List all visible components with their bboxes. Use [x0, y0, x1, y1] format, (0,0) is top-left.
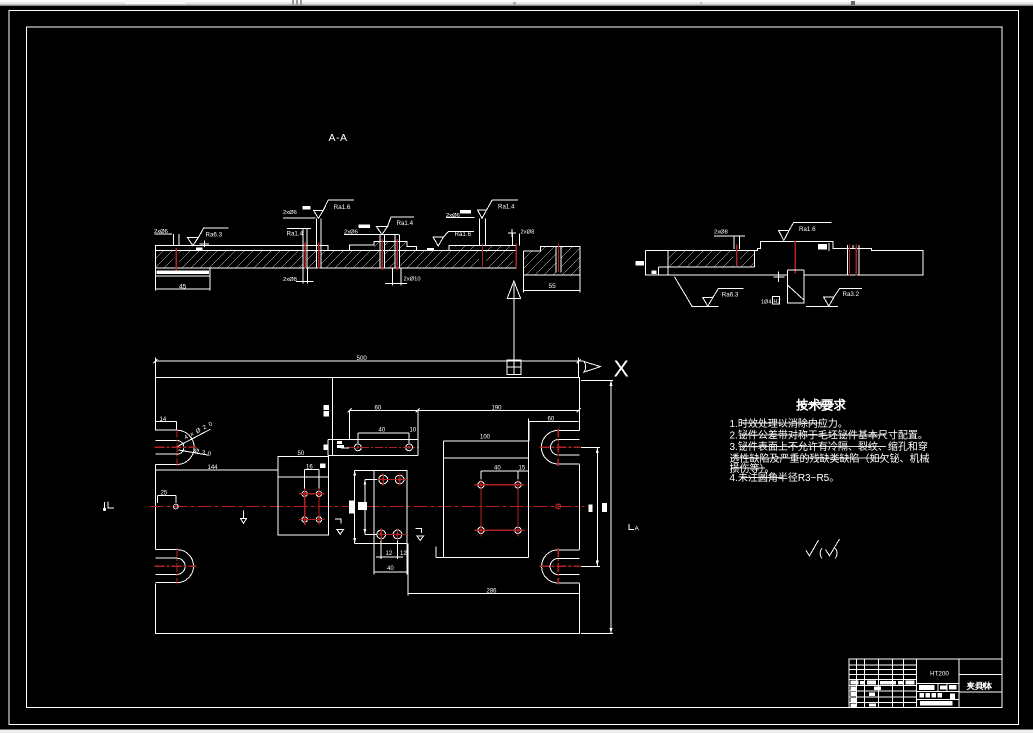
hatched region — [668, 250, 755, 267]
svg-text:14: 14 — [160, 417, 167, 423]
U-slot lower-right — [542, 550, 580, 583]
left grid verticals — [856, 659, 903, 707]
svg-text:2xØ8: 2xØ8 — [714, 229, 728, 235]
datum mark right of block — [416, 529, 424, 541]
svg-text:100: 100 — [480, 435, 491, 441]
U-slot upper-right — [541, 430, 579, 464]
right block — [436, 419, 528, 558]
dim 25 + small hole left — [157, 496, 176, 503]
svg-text:1Ø4: 1Ø4 — [761, 300, 771, 306]
svg-text:A-A: A-A — [329, 132, 348, 144]
section arrow up — [507, 281, 520, 360]
dim 2xPhi10 below bosses — [385, 268, 407, 285]
roughness Ra1.4 #2 on dimline — [377, 217, 415, 235]
svg-text:500: 500 — [357, 355, 368, 362]
roughness Ra6.3 #1 — [187, 228, 228, 245]
tall roughness with Ra1.4 #3 — [478, 200, 519, 218]
datum flag on centerline — [241, 511, 247, 524]
hole edge verticals right part — [847, 245, 859, 275]
roughness Ra1.6 top — [779, 223, 832, 241]
svg-text:2xØ6: 2xØ6 — [283, 210, 297, 216]
dim 2xPhi8 below holes — [296, 268, 314, 283]
4 small holes — [302, 491, 322, 522]
datum symbol far left — [105, 502, 114, 508]
leader Phi30 — [179, 450, 209, 455]
svg-text:Ra1.6: Ra1.6 — [455, 231, 472, 238]
svg-text:2xØ8: 2xØ8 — [521, 229, 535, 235]
body lines — [730, 417, 930, 484]
finish marks bottom: check (check) — [806, 540, 819, 556]
svg-text:Ra1.6: Ra1.6 — [799, 226, 816, 233]
svg-text:50: 50 — [298, 451, 305, 457]
svg-text:60: 60 — [548, 417, 555, 423]
svg-text:286: 286 — [487, 589, 498, 595]
dim 500 / section line with box — [155, 358, 583, 378]
dim 144 line — [155, 469, 278, 471]
dim 14 top-left — [155, 415, 176, 430]
center top strip with 2 holes — [328, 439, 418, 455]
leader 4xPhi20 — [178, 429, 211, 446]
U-slot upper-left — [155, 430, 194, 464]
outer box — [849, 659, 1002, 707]
svg-text:Ra1.4: Ra1.4 — [498, 204, 515, 211]
text blobs in cells — [851, 681, 957, 707]
svg-text:A: A — [635, 526, 640, 533]
hole edge verticals — [174, 218, 520, 267]
svg-text:144: 144 — [208, 465, 219, 471]
center block — [374, 470, 407, 543]
svg-text:12: 12 — [386, 551, 393, 557]
dim 40/10 above strip — [358, 410, 418, 455]
svg-text:12: 12 — [400, 551, 407, 557]
dims in right block — [481, 471, 529, 479]
svg-text:(: ( — [819, 547, 823, 559]
svg-text:2xØ8: 2xØ8 — [283, 277, 297, 283]
dim 60 right top — [529, 422, 579, 442]
svg-text:16: 16 — [306, 464, 313, 470]
tiny rotated labels left of strip — [324, 405, 330, 410]
svg-text:25: 25 — [161, 491, 168, 497]
right column rows — [959, 675, 1002, 692]
toolbar strip top — [0, 0, 1033, 6]
vertical dims left of center block — [355, 470, 377, 543]
svg-text:10: 10 — [410, 428, 417, 434]
roughness Ra1.6 #2 mid — [433, 231, 474, 246]
svg-text:H7: H7 — [774, 299, 781, 305]
dims above strip: chained 60 + 190 — [349, 410, 579, 439]
left small label blob — [636, 261, 644, 265]
left foot block — [156, 268, 210, 276]
svg-text:40: 40 — [494, 466, 501, 472]
status strip bottom — [0, 729, 1033, 733]
edge breaks at slot openings — [155, 430, 581, 583]
svg-text:40: 40 — [379, 428, 386, 434]
svg-text:2xØ10: 2xØ10 — [404, 277, 421, 283]
roughness Ra6.3 bottom-left with leader — [675, 277, 744, 307]
datum flag far right — [629, 524, 634, 530]
datum marks below block — [335, 519, 344, 534]
bar profile outline — [155, 241, 516, 268]
svg-text:40: 40 — [387, 566, 394, 572]
dim 55 — [524, 275, 581, 293]
svg-text:55: 55 — [549, 283, 557, 290]
middle column internals — [917, 684, 960, 700]
dim 286 bottom — [408, 543, 580, 595]
bottom protrusion block — [788, 270, 804, 303]
tall roughness Ra1.6 #1 — [314, 200, 355, 218]
section box marker — [507, 360, 521, 374]
body outline — [645, 242, 923, 276]
svg-text:190: 190 — [492, 405, 503, 411]
red circle on centerline right — [556, 504, 561, 509]
svg-text:15: 15 — [519, 466, 526, 472]
red centerlines — [737, 241, 857, 276]
svg-text:HT200: HT200 — [930, 670, 949, 677]
svg-text:Ra1.4: Ra1.4 — [287, 231, 304, 238]
roughness Ra3.2 bottom-right — [806, 289, 862, 307]
label Phi12 small — [818, 244, 827, 250]
right vertical dims — [581, 380, 613, 633]
4 bigger holes — [377, 475, 404, 539]
svg-text:Ra3.2: Ra3.2 — [843, 291, 860, 298]
right end block — [524, 251, 581, 275]
hole gaps (black) in bar — [173, 241, 520, 269]
svg-text:X: X — [614, 356, 629, 382]
red centerlines of holes — [176, 239, 516, 270]
left-center block — [278, 457, 329, 536]
hatch top inner line — [155, 250, 516, 252]
dims below center block 12 12 40 — [374, 541, 407, 575]
svg-text:45: 45 — [179, 283, 187, 290]
view direction arrow X — [584, 362, 601, 373]
dim 45 — [156, 276, 210, 290]
svg-text:Ra1.6: Ra1.6 — [334, 204, 351, 211]
left grid horizontals — [849, 665, 917, 703]
U-slot lower-left — [155, 550, 193, 583]
inner verticals / steps — [659, 250, 755, 275]
raised region boundary vertical — [332, 377, 334, 455]
hatched body main bar — [155, 251, 516, 268]
svg-text:): ) — [835, 547, 839, 559]
svg-text:Ra6.3: Ra6.3 — [722, 292, 739, 299]
svg-text:Ra6.3: Ra6.3 — [206, 231, 223, 238]
4 holes right block — [478, 482, 521, 534]
main column dividers — [917, 659, 960, 707]
outer body rectangle — [155, 377, 579, 633]
main horizontal red centerline — [150, 505, 585, 507]
svg-text:Ra1.4: Ra1.4 — [397, 220, 414, 227]
red centerlines of slots — [155, 429, 581, 585]
svg-text:60: 60 — [375, 405, 382, 411]
